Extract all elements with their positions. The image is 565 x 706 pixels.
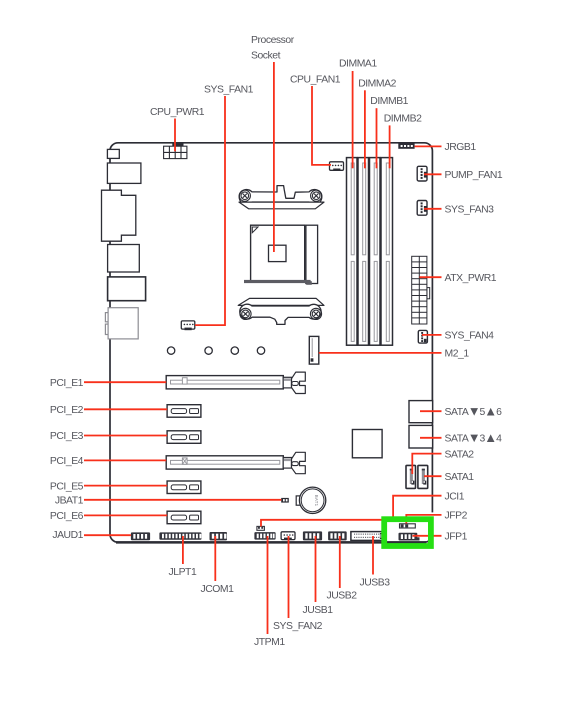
wire PUMP_FAN1 (424, 173, 442, 175)
connector M2_1 (309, 336, 319, 364)
wire SATA1 (424, 475, 442, 477)
svg-text:PUMP_FAN1: PUMP_FAN1 (445, 170, 503, 181)
svg-text:PCI_E6: PCI_E6 (50, 511, 84, 522)
connector ATX_PWR1 (412, 256, 430, 324)
svg-text:JUSB2: JUSB2 (327, 591, 358, 602)
wire DIMMA2 (364, 90, 366, 168)
svg-text:JRGB1: JRGB1 (445, 142, 477, 153)
fan header SYS_FAN2 (281, 532, 295, 540)
pcie x1 slot PCI_E6 (167, 511, 201, 524)
connector JCI1 (257, 526, 265, 530)
cpu socket square (251, 225, 305, 281)
wire JLPT1 (182, 536, 184, 564)
wire JRGB1 (415, 145, 442, 147)
cpu bottom bracket flange (238, 298, 324, 305)
cpu bottom bracket (240, 304, 321, 324)
mounting hole 1 (167, 347, 174, 354)
cpu socket center hole (269, 245, 287, 261)
wire SATA34 (420, 437, 442, 439)
mounting hole 4 (257, 347, 264, 354)
svg-text:ATX_PWR1: ATX_PWR1 (445, 273, 497, 284)
header JUSB3 (351, 532, 383, 541)
header JFP1 (399, 533, 420, 541)
cpu socket bottom bar (244, 280, 311, 283)
mounting hole 3 (231, 347, 238, 354)
svg-text:JBAT1: JBAT1 (55, 496, 84, 507)
io port box 4 (108, 245, 140, 273)
svg-text:SATA2: SATA2 (445, 449, 475, 460)
battery BAT1 (296, 487, 326, 513)
wire DIMMB2 (389, 125, 391, 168)
io port small square (107, 149, 119, 158)
wire SYS_FAN4 (422, 334, 442, 336)
red leader lines (84, 62, 442, 634)
sata port SATA1 (418, 465, 428, 488)
wire JCOM1 (214, 536, 216, 581)
box SATA56 (409, 401, 433, 423)
connector CPU_PWR1 tab (172, 143, 183, 146)
svg-text:SATA▼5▲6: SATA▼5▲6 (445, 403, 503, 418)
io port stepped box (102, 190, 136, 241)
header JTPM1 (254, 532, 275, 540)
cpu bottom bracket left screw (240, 308, 251, 319)
wire PCI_E5 (84, 485, 167, 487)
pcie x1 slot PCI_E3 (167, 431, 201, 444)
header JAUD1 (131, 532, 150, 540)
svg-text:CPU_FAN1: CPU_FAN1 (290, 75, 341, 86)
box SATA34 (409, 425, 433, 448)
svg-text:JFP1: JFP1 (445, 532, 468, 543)
io port box 2 (107, 163, 140, 183)
svg-text:PCI_E2: PCI_E2 (50, 405, 84, 416)
connector JBAT1 (281, 498, 289, 503)
svg-text:SYS_FAN2: SYS_FAN2 (273, 621, 323, 632)
sata port SATA2 (406, 465, 416, 488)
svg-text:DIMMB2: DIMMB2 (384, 114, 422, 125)
svg-text:Processor: Processor (251, 35, 295, 46)
connector JFP2 (400, 524, 416, 528)
cpu top bracket flange (239, 202, 324, 209)
wire JUSB2 (339, 536, 341, 588)
wire M2_1 (319, 352, 442, 354)
io port audio box (105, 308, 138, 339)
cpu top bracket (239, 186, 322, 205)
svg-text:CPU_PWR1: CPU_PWR1 (150, 107, 205, 118)
wire PCI_E3 (84, 435, 167, 437)
fan header CPU_FAN1 (330, 162, 344, 171)
svg-text:JLPT1: JLPT1 (169, 567, 197, 578)
cpu bottom bracket right screw (310, 308, 321, 319)
cpu top bracket left screw (239, 190, 250, 201)
svg-text:Socket: Socket (251, 51, 281, 62)
wire JFP1 (413, 535, 442, 537)
fan header SYS_FAN4 (418, 330, 427, 343)
wire SATA56 (420, 410, 442, 412)
board outline (110, 143, 432, 542)
wire DIMMA1 (352, 71, 354, 168)
wire ATX_PWR1 (420, 276, 442, 278)
dimm slot DIMMB1 (370, 158, 381, 346)
wire JAUD1 (84, 534, 131, 536)
wire JUSB3 (372, 536, 374, 575)
svg-text:SYS_FAN3: SYS_FAN3 (445, 205, 495, 216)
highlight box JFP1 (384, 519, 431, 546)
connector CPU_PWR1 (164, 146, 187, 158)
svg-text:JUSB3: JUSB3 (360, 577, 391, 588)
wire PCI_E4 (84, 459, 166, 461)
fan header SYS_FAN3 (417, 201, 427, 216)
svg-text:PCI_E5: PCI_E5 (50, 481, 84, 492)
wire DIMMB1 (376, 108, 378, 168)
svg-text:PCI_E3: PCI_E3 (50, 431, 84, 442)
wire JCI1 (261, 496, 442, 527)
wire SYS_FAN3 (424, 208, 442, 210)
chipset (352, 430, 382, 458)
fan header SYS_FAN1 (181, 321, 195, 330)
fan header PUMP_FAN1 (417, 166, 427, 181)
wire CPU_PWR1 (174, 119, 176, 152)
svg-text:PCI_E1: PCI_E1 (50, 378, 84, 389)
svg-text:JFP2: JFP2 (445, 511, 468, 522)
board bottom edge (thick) (116, 541, 426, 544)
io port box 5 (108, 277, 146, 301)
svg-text:SYS_FAN1: SYS_FAN1 (204, 85, 254, 96)
dimm slot DIMMB2 (381, 158, 393, 346)
wire SATA2 (412, 454, 441, 474)
pcie x1 slot PCI_E2 (167, 405, 201, 418)
wire JTPM1 (267, 536, 269, 634)
cpu top bracket right screw (311, 190, 322, 201)
cpu socket corner mark (252, 227, 258, 233)
wire JFP2 (406, 515, 441, 524)
wire PCI_E1 (84, 381, 166, 383)
svg-text:DIMMA2: DIMMA2 (358, 79, 396, 90)
wire PCI_E2 (84, 408, 167, 410)
header JUSB2 (328, 531, 347, 540)
connector JRGB1 (398, 143, 414, 149)
svg-text:SATA1: SATA1 (445, 472, 475, 483)
svg-text:JAUD1: JAUD1 (52, 530, 83, 541)
svg-text:DIMMA1: DIMMA1 (339, 59, 377, 70)
pcie x16 slot PCI_E1 (166, 372, 305, 393)
header JCOM1 (210, 532, 228, 540)
wire CPU_FAN1 (312, 86, 331, 165)
svg-text:PCI_E4: PCI_E4 (50, 456, 84, 467)
mounting hole 2 (205, 347, 212, 354)
svg-text:JCOM1: JCOM1 (201, 584, 235, 595)
wire PCI_E6 (84, 514, 167, 516)
wire Processor Socket (273, 62, 275, 252)
gap on board right edge above JFP highlight (431, 512, 435, 516)
wire JBAT1 (84, 499, 281, 501)
svg-text:JTPM1: JTPM1 (254, 637, 285, 648)
wire SYS_FAN1 (195, 96, 225, 325)
svg-text:DIMMB1: DIMMB1 (370, 96, 408, 107)
wire SYS_FAN2 (288, 536, 290, 618)
pcie x16 slot PCI_E4 (166, 452, 305, 473)
header JLPT1 (159, 532, 201, 539)
svg-text:SATA▼3▲4: SATA▼3▲4 (445, 430, 503, 445)
svg-text:BAT1: BAT1 (314, 495, 319, 507)
wire JUSB1 (315, 536, 317, 602)
svg-text:SYS_FAN4: SYS_FAN4 (445, 331, 495, 342)
cpu socket right rail (306, 225, 318, 283)
dimm slot DIMMA2 (358, 158, 369, 346)
pcie x1 slot PCI_E5 (167, 481, 201, 494)
svg-text:JUSB1: JUSB1 (303, 605, 334, 616)
dimm slot DIMMA1 (347, 158, 358, 346)
header JUSB1 (303, 531, 322, 540)
svg-text:JCI1: JCI1 (445, 491, 465, 502)
svg-text:M2_1: M2_1 (445, 349, 470, 360)
